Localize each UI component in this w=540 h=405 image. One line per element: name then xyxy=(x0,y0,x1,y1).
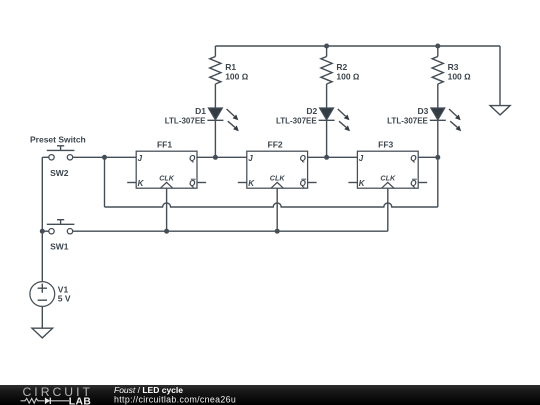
svg-text:CLK: CLK xyxy=(270,174,286,183)
switch SW2 xyxy=(42,146,74,160)
svg-text:FF2: FF2 xyxy=(268,140,283,150)
ground GND bottom xyxy=(32,328,53,338)
resistor R2 xyxy=(321,57,332,85)
footer bar xyxy=(0,385,540,405)
wire R2 top lead xyxy=(326,46,328,57)
svg-text:Q: Q xyxy=(300,154,307,163)
pin labels FF1 xyxy=(138,154,196,188)
wire SW2 to FF1 J xyxy=(73,156,136,158)
node CLK1 junction xyxy=(164,229,169,234)
wire feedback right riser xyxy=(437,157,439,207)
wire R3 top lead xyxy=(437,46,439,57)
wire R2 to D2 xyxy=(326,84,328,108)
wire feedback bus with hops xyxy=(105,203,438,207)
wire FF2 CLK drop xyxy=(276,188,278,231)
wire clock bus xyxy=(73,230,388,232)
svg-text:Preset Switch: Preset Switch xyxy=(30,135,86,145)
node top rail R3 junction xyxy=(435,44,440,49)
pin labels FF3 xyxy=(359,154,417,188)
node Q3 junction xyxy=(435,155,440,160)
wire R3 to D3 xyxy=(437,84,439,108)
wire D1 to Q1 node xyxy=(214,120,216,157)
switch SW1 xyxy=(42,220,74,234)
resistor R1 xyxy=(210,57,221,85)
svg-text:FF1: FF1 xyxy=(157,140,172,150)
resistor R3 xyxy=(432,57,443,85)
svg-text:Q: Q xyxy=(189,154,196,163)
wire V1 to ground xyxy=(41,306,43,328)
svg-text:LTL-307EE: LTL-307EE xyxy=(165,116,206,125)
svg-text:FF3: FF3 xyxy=(378,140,393,150)
wire R1 top lead xyxy=(214,46,216,57)
svg-text:D3: D3 xyxy=(418,106,429,116)
node Q1 junction xyxy=(213,155,218,160)
node SW1 rail junction xyxy=(40,229,45,234)
svg-text:K: K xyxy=(248,179,255,188)
svg-text:LTL-307EE: LTL-307EE xyxy=(387,116,428,125)
wire feedback left drop xyxy=(104,157,106,207)
node CLK2 junction xyxy=(275,229,280,234)
wire D2 to Q2 node xyxy=(326,120,328,157)
svg-text:LAB: LAB xyxy=(69,396,91,405)
svg-text:http://circuitlab.com/cnea26u: http://circuitlab.com/cnea26u xyxy=(114,394,236,404)
svg-text:CLK: CLK xyxy=(159,174,175,183)
svg-text:J: J xyxy=(138,154,143,163)
svg-text:100 Ω: 100 Ω xyxy=(225,71,249,81)
wire FF3 Q to node xyxy=(418,156,438,158)
svg-text:J: J xyxy=(359,154,364,163)
svg-text:Q: Q xyxy=(410,179,417,188)
wire D3 to Q3 node xyxy=(437,120,439,157)
wire FF1 CLK drop xyxy=(166,188,168,231)
svg-text:J: J xyxy=(248,154,253,163)
svg-text:SW2: SW2 xyxy=(50,168,69,178)
svg-text:Q: Q xyxy=(300,179,307,188)
svg-text:LTL-307EE: LTL-307EE xyxy=(276,116,317,125)
wire R1 to D1 xyxy=(214,84,216,108)
wire FF2 Q to FF3 J xyxy=(308,156,358,158)
svg-text:100 Ω: 100 Ω xyxy=(448,71,472,81)
wire top rail xyxy=(215,45,500,47)
node top rail R2 junction xyxy=(324,44,329,49)
wire left rail xyxy=(41,157,43,281)
node Q2 junction xyxy=(324,155,329,160)
svg-text:Q: Q xyxy=(189,179,196,188)
svg-text:D1: D1 xyxy=(195,106,206,116)
svg-text:CLK: CLK xyxy=(380,174,396,183)
CircuitLab logo xyxy=(21,385,93,405)
svg-text:K: K xyxy=(359,179,366,188)
voltage source V1 xyxy=(30,282,55,307)
ground GND right xyxy=(490,106,510,115)
LED D2 xyxy=(319,108,350,131)
node J1 junction xyxy=(102,155,107,160)
flip-flop FF1 xyxy=(127,151,206,188)
svg-text:Q: Q xyxy=(410,154,417,163)
flip-flop FF3 xyxy=(348,151,427,188)
wire right ground drop xyxy=(499,46,501,106)
LED D3 xyxy=(430,108,461,131)
svg-text:K: K xyxy=(138,179,145,188)
svg-text:5 V: 5 V xyxy=(58,294,71,304)
flip-flop FF2 xyxy=(238,151,317,188)
wire FF3 CLK drop xyxy=(387,188,389,231)
svg-text:SW1: SW1 xyxy=(50,241,69,251)
pin labels FF2 xyxy=(248,154,306,188)
wire FF1 Q to FF2 J xyxy=(197,156,247,158)
LED D1 xyxy=(207,108,238,131)
svg-text:100 Ω: 100 Ω xyxy=(336,71,360,81)
svg-text:D2: D2 xyxy=(306,106,317,116)
